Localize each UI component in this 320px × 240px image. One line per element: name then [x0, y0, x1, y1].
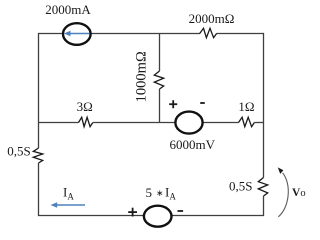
- wire left: [38, 33, 40, 148]
- resistor 1000mOhm vertical: [154, 71, 163, 89]
- resistor 3Ohm: [79, 117, 93, 126]
- wire top: [39, 33, 201, 35]
- wire middle-2: [93, 122, 239, 124]
- wire middle-3: [255, 122, 264, 124]
- dependent source 5*IA: [144, 206, 172, 227]
- svg-text:IA: IA: [165, 185, 176, 202]
- svg-text:0,5S: 0,5S: [229, 179, 252, 194]
- wire mid-vertical: [159, 33, 161, 71]
- wire bottom: [39, 215, 264, 217]
- svg-text:2000mΩ: 2000mΩ: [189, 11, 235, 26]
- voltage source V1: [175, 112, 202, 134]
- dep source minus: [178, 210, 184, 212]
- svg-text:3Ω: 3Ω: [77, 99, 93, 114]
- resistor 2000mOhm: [200, 28, 217, 37]
- wire mid-vertical-lower: [159, 89, 161, 123]
- resistor 0,5S left vertical: [33, 148, 42, 163]
- dep source plus: [128, 208, 137, 217]
- svg-text:Vo: Vo: [292, 187, 306, 199]
- resistor 1Ohm: [239, 117, 255, 126]
- svg-text:0,5S: 0,5S: [7, 144, 30, 159]
- svg-text:6000mV: 6000mV: [170, 137, 216, 152]
- resistor 0,5S right vertical: [258, 178, 267, 197]
- wire middle: [39, 122, 79, 124]
- wire top-right: [217, 33, 264, 35]
- wire right: [263, 33, 265, 178]
- svg-text:5: 5: [146, 185, 153, 200]
- svg-text:1000mΩ: 1000mΩ: [133, 51, 149, 102]
- svg-text:IA: IA: [63, 185, 74, 202]
- V1 minus: [200, 102, 205, 104]
- Vo arc arrow: [278, 173, 288, 217]
- current source CS1 circle: [63, 23, 91, 45]
- svg-text:2000mA: 2000mA: [45, 2, 91, 17]
- svg-text:∗: ∗: [156, 188, 164, 198]
- Vo arrowhead: [278, 167, 284, 174]
- IA arrow: [51, 202, 86, 207]
- wire right-lower: [263, 196, 265, 216]
- V1 plus: [169, 100, 177, 108]
- wire left-lower: [38, 163, 40, 216]
- current source CS1 arrow: [64, 31, 90, 37]
- svg-text:1Ω: 1Ω: [238, 99, 254, 114]
